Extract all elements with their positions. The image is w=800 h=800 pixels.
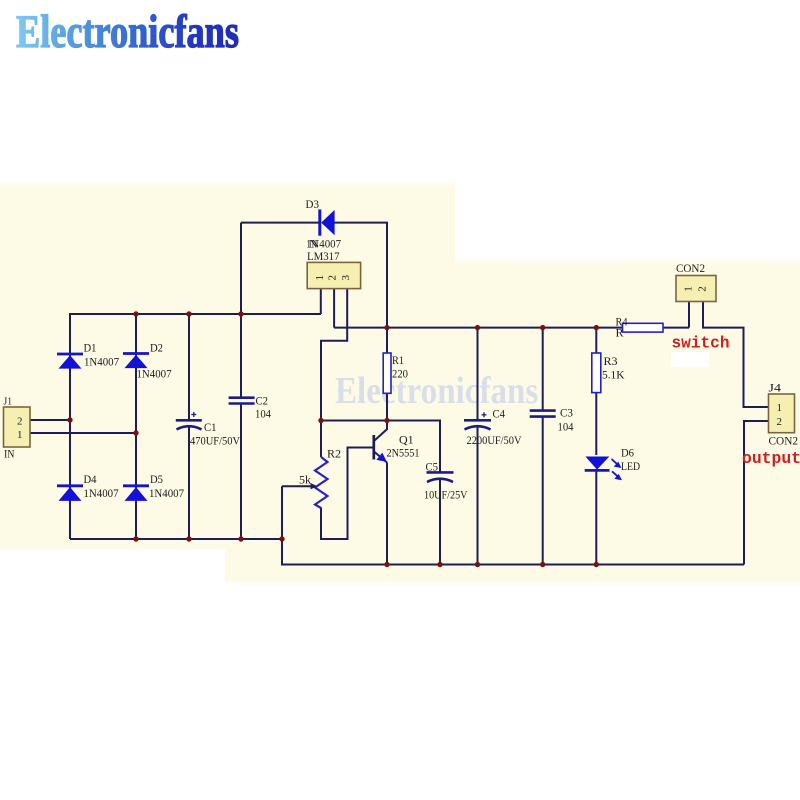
junction on bus at D2 branch	[133, 311, 138, 316]
potentiometer R2 wiper arrowhead	[311, 483, 318, 489]
LED D6 cathode bar	[585, 469, 610, 472]
svg-text:470UF/50V: 470UF/50V	[190, 434, 240, 448]
wire: J4 pin2 to ground rail	[744, 421, 769, 565]
svg-text:J1: J1	[4, 396, 13, 408]
svg-text:104: 104	[255, 407, 271, 421]
diode D2	[123, 354, 149, 369]
svg-text:104: 104	[558, 420, 574, 434]
svg-text:220: 220	[392, 367, 408, 381]
junction rail1 at C1	[186, 536, 191, 541]
wire: CON2 pin2 stub down, right, down to J4 pin1	[703, 302, 769, 407]
junction on bus at C1 branch	[186, 311, 191, 316]
junction output rail at C3	[540, 325, 545, 330]
svg-text:3: 3	[340, 275, 352, 281]
capacitor C5 (electrolytic)	[427, 472, 454, 482]
wire: C2 branch vertical lower	[240, 404, 242, 540]
svg-text:1: 1	[17, 429, 23, 441]
capacitor C1 (electrolytic)	[176, 420, 202, 429]
svg-text:D6: D6	[621, 446, 634, 460]
wire: R3 to LED	[595, 393, 597, 455]
junction mid rail at R2 top	[318, 418, 323, 423]
wire: R2 top stub	[320, 421, 322, 458]
diode D5	[123, 486, 149, 501]
resistor R3	[592, 353, 601, 393]
svg-text:2: 2	[777, 416, 783, 428]
svg-text:C4: C4	[493, 407, 506, 421]
svg-text:10UF/25V: 10UF/25V	[424, 488, 468, 502]
wire: R1 bottom stub	[386, 393, 388, 420]
svg-text:2: 2	[697, 286, 709, 292]
wire: D3 top left segment y=222.6	[241, 222, 319, 224]
diode D3	[320, 209, 335, 235]
potentiometer R2 zigzag	[315, 457, 328, 508]
svg-text:C2: C2	[256, 394, 269, 408]
svg-text:D4: D4	[84, 472, 97, 486]
wire: C2 branch vertical upper	[240, 314, 242, 397]
wire: bottom rail step down at x=282	[282, 539, 744, 565]
svg-text:LM317: LM317	[307, 249, 340, 263]
capacitor C3	[530, 411, 556, 417]
connector CON2 switch body	[676, 276, 716, 302]
wire: LM317 pin1 stub	[320, 289, 322, 314]
IC U1 LM317 body	[307, 262, 360, 288]
svg-text:2: 2	[17, 416, 23, 428]
svg-text:J4: J4	[769, 381, 782, 395]
wire: D3 top right segment to x=387	[335, 223, 388, 328]
svg-text:R2: R2	[327, 447, 341, 461]
wire: bottom rail 1 y=539	[70, 538, 282, 540]
svg-text:D3: D3	[306, 197, 320, 211]
wire: top bus y=314 from x=70 to LM317 pin1	[70, 314, 321, 539]
junction output rail at R1/D3	[384, 325, 389, 330]
svg-text:D5: D5	[150, 472, 163, 486]
wire: C5 bottom stub	[439, 479, 441, 565]
svg-text:IN: IN	[4, 447, 15, 461]
wire: output rail y=327.6	[334, 327, 689, 329]
svg-text:R: R	[616, 326, 624, 340]
wire: C3 top stub	[542, 328, 544, 411]
wire: LM317 pin3 stub and jog to x=321	[321, 289, 347, 421]
svg-text:2N5551: 2N5551	[387, 446, 420, 460]
junction rail2 at Q1 emitter	[384, 562, 389, 567]
wire: Q1 collector vertical	[386, 421, 388, 430]
svg-text:1N4007: 1N4007	[84, 355, 119, 369]
LED D6 emission arrow 2	[612, 471, 622, 480]
svg-text:R3: R3	[604, 354, 618, 368]
wire: J1 pin1 to bridge node	[30, 432, 136, 434]
svg-text:1N4007: 1N4007	[149, 486, 184, 500]
capacitor C4 (electrolytic)	[464, 420, 491, 429]
junction rail2 at LED	[594, 562, 599, 567]
schematic pale-yellow background left block	[0, 180, 455, 549]
wire: C1 branch vertical upper	[188, 314, 190, 419]
capacitor C4 plus sign	[482, 412, 487, 417]
transistor Q1 base bar	[372, 435, 375, 460]
wire: C4 bottom stub	[477, 427, 479, 565]
svg-text:C5: C5	[426, 460, 439, 474]
diode D4	[57, 486, 83, 501]
wire: C3 bottom stub	[542, 417, 544, 565]
svg-text:1: 1	[314, 275, 326, 281]
junction rail2 at C3	[540, 562, 545, 567]
svg-text:C3: C3	[560, 406, 573, 420]
svg-text:Q1: Q1	[399, 433, 414, 447]
wire: J1 pin2 to bridge node	[30, 419, 70, 421]
schematic pale-yellow background bottom-middle block	[225, 549, 455, 586]
wire: CON2 pin1 stub	[688, 302, 690, 328]
capacitor C2	[229, 398, 255, 404]
wire: R3 top stub	[595, 328, 597, 353]
wire: C4 top stub	[477, 328, 479, 420]
Electronicfans watermark	[335, 369, 538, 413]
junction on bus at C2/D3 branch	[238, 311, 243, 316]
wire: D3 left vertical x=241	[240, 223, 242, 314]
connector J1 body	[4, 407, 31, 447]
svg-text:output: output	[742, 449, 800, 468]
wire: R2 wiper down to ground rail	[281, 486, 283, 539]
junction J1 pin2 node	[67, 417, 72, 422]
junction output rail at R3	[594, 325, 599, 330]
junction rail2 at C4	[475, 562, 480, 567]
junction J1 pin1 node	[133, 430, 138, 435]
wire: C1 branch vertical lower	[188, 427, 190, 539]
LED D6 triangle	[585, 457, 609, 470]
svg-text:D2: D2	[150, 341, 163, 355]
resistor R1	[383, 353, 391, 393]
wire: Q1 emitter vertical	[386, 463, 388, 565]
svg-text:D1: D1	[84, 341, 97, 355]
junction rail2 at C5	[437, 562, 442, 567]
diode D1	[57, 354, 83, 369]
svg-text:CON2: CON2	[676, 261, 705, 275]
capacitor C1 plus sign	[191, 412, 196, 417]
wire: mid rail y=420.5 to C5 corner	[321, 421, 440, 472]
junction mid rail at R1 bottom	[384, 418, 389, 423]
junction rail1 at C2	[238, 536, 243, 541]
svg-text:2200UF/50V: 2200UF/50V	[467, 433, 522, 447]
junction output rail at C4	[475, 325, 480, 330]
transistor Q1 emitter arrowhead	[376, 453, 386, 462]
white patch under switch label	[671, 352, 709, 367]
svg-text:1: 1	[777, 402, 783, 414]
svg-text:switch: switch	[672, 334, 730, 353]
svg-text:1: 1	[683, 286, 695, 292]
junction rail1 at D2/D5	[133, 536, 138, 541]
junction rail1 at wiper	[279, 536, 284, 541]
connector J4 body	[769, 394, 795, 433]
svg-text:1N4007: 1N4007	[84, 486, 119, 500]
transistor Q1 collector diagonal	[375, 429, 388, 441]
svg-text:CON2: CON2	[769, 434, 799, 448]
Electronicfans logo	[0, 0, 800, 60]
wire: LED bottom stub	[595, 471, 597, 565]
svg-text:5k: 5k	[299, 473, 311, 487]
resistor R4	[623, 323, 664, 332]
wire: D2/D5 branch vertical x=136	[135, 314, 137, 539]
svg-text:1N4007: 1N4007	[137, 367, 172, 381]
wire: R2 wiper horizontal	[282, 485, 311, 487]
wire: R2 bottom stub and link to Q1 base	[321, 448, 373, 540]
svg-text:R1: R1	[392, 353, 404, 367]
svg-text:C1: C1	[204, 420, 217, 434]
transistor Q1 emitter diagonal	[375, 452, 388, 463]
svg-text:LED: LED	[621, 459, 640, 473]
svg-text:5.1K: 5.1K	[602, 368, 625, 382]
schematic pale-yellow background right block	[455, 257, 800, 586]
LED D6 emission arrow 1	[612, 459, 622, 468]
svg-text:2: 2	[327, 275, 339, 281]
wire: LM317 pin2 stub to output rail	[333, 289, 335, 328]
wire: R1 top stub	[386, 328, 388, 353]
